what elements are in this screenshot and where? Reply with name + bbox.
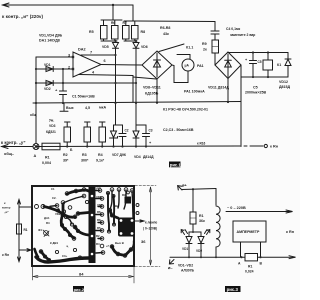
wire R5 R6 top bus: [101, 19, 122, 21]
svg-text:рис.1: рис.1: [170, 162, 182, 167]
svg-text:6: 6: [104, 59, 106, 63]
svg-text:R1: R1: [24, 228, 28, 232]
wire bridge1 bottom down: [156, 79, 158, 103]
svg-text:АМПЕРМЕТР: АМПЕРМЕТР: [237, 230, 261, 234]
svg-text:R1: R1: [248, 265, 252, 269]
dimension 36: [135, 186, 160, 267]
minus terminal: [170, 260, 174, 264]
svg-text:С5: С5: [258, 60, 262, 64]
pcb relay footprint: [118, 218, 135, 237]
wire R9 to bridge2: [214, 53, 216, 65]
wire PA1 bottom loop: [172, 65, 188, 83]
node: [156, 102, 158, 104]
capacitor C4: [211, 22, 219, 41]
switch K1.1: [159, 44, 190, 59]
inductor coil: [216, 189, 220, 258]
svg-text:C2: C2: [125, 129, 129, 133]
wire VD7 C2 jog: [114, 124, 123, 126]
svg-text:Б: Б: [70, 148, 73, 152]
svg-text:КД521: КД521: [46, 130, 56, 134]
svg-text:VD3: VD3: [49, 124, 56, 128]
wire R1 bottom: [192, 224, 194, 232]
svg-text:Д815Д: Д815Д: [279, 85, 291, 89]
pcb pads: [35, 188, 140, 262]
svg-text:39*: 39*: [63, 159, 69, 163]
svg-text:DA1 140УД8: DA1 140УД8: [39, 39, 60, 43]
svg-text:КД105Б: КД105Б: [145, 92, 159, 96]
led VD2: [198, 230, 210, 258]
svg-text:R2: R2: [96, 234, 100, 238]
node: [252, 76, 254, 78]
node: [135, 40, 137, 42]
wire pin3 input: [36, 56, 73, 58]
wire arrow 220: [226, 211, 292, 213]
svg-text:2к: 2к: [203, 48, 207, 52]
node: [62, 68, 64, 70]
node: [227, 101, 229, 103]
svg-text:к контр. „у”: к контр. „у”: [1, 140, 25, 145]
zener VD12: [285, 53, 291, 78]
wire R7-R8 bottom: [124, 40, 137, 42]
svg-text:9,1к*: 9,1к*: [96, 159, 105, 163]
svg-text:Д814Д: Д814Д: [143, 155, 154, 159]
svg-text:С3+: С3+: [62, 254, 68, 258]
svg-text:R4: R4: [98, 153, 103, 157]
wire test bottom: [19, 249, 30, 251]
pcb right-mid traces: [108, 193, 114, 231]
svg-text:контр: контр: [2, 206, 11, 210]
svg-text:VD2: VD2: [196, 249, 202, 253]
svg-text:В: В: [260, 262, 263, 266]
pcb trace knot: [60, 212, 65, 217]
shunt R1 fig3: [245, 254, 258, 261]
svg-text:( 0–120В): ( 0–120В): [143, 227, 157, 231]
svg-text:рис.2: рис.2: [74, 287, 85, 292]
node: [192, 231, 194, 233]
node: [35, 102, 37, 104]
svg-text:VD12: VD12: [279, 80, 288, 84]
wire R5-R6 bottom: [101, 40, 117, 42]
svg-text:+Г: +Г: [106, 244, 110, 248]
dimension 84: [33, 267, 135, 283]
svg-text:замените 2 вар: замените 2 вар: [230, 33, 255, 37]
wire opamp out to bridge: [101, 64, 142, 67]
svg-text:84: 84: [79, 272, 84, 277]
wire: [112, 5, 114, 20]
node: [62, 82, 64, 84]
svg-text:DA2: DA2: [78, 48, 86, 52]
svg-text:36к: 36к: [199, 219, 205, 223]
svg-text:+: +: [245, 58, 248, 62]
svg-text:VD4: VD4: [134, 155, 141, 159]
node: [101, 145, 103, 147]
svg-text:АЛ307Б: АЛ307Б: [181, 269, 195, 273]
wire bridge2 right down: [240, 65, 242, 147]
diode VD2: [46, 81, 53, 86]
label lamp arrow: [135, 220, 143, 222]
svg-text:Вых: Вых: [66, 106, 74, 110]
node A fig3: [240, 256, 242, 258]
wire right bottom bus: [241, 76, 288, 78]
svg-text:43к: 43к: [163, 32, 169, 36]
wire VD5 down rail: [115, 48, 117, 125]
svg-text:300*: 300*: [81, 159, 89, 163]
svg-text:VD5: VD5: [102, 45, 109, 49]
resistor Rt: [17, 224, 22, 234]
resistor R1: [42, 143, 60, 150]
svg-text:7: 7: [90, 51, 92, 55]
fig1 tag: [169, 162, 181, 168]
svg-text:~ 0 – 220В: ~ 0 – 220В: [227, 206, 246, 210]
svg-text:К1: К1: [277, 63, 281, 67]
wire down to bus: [132, 76, 134, 103]
wire ammeter legs: [240, 242, 242, 257]
svg-text:R6-R8: R6-R8: [160, 26, 170, 30]
svg-text:R8: R8: [97, 218, 101, 222]
ground stub: [60, 103, 68, 111]
svg-text:С1: С1: [51, 187, 55, 191]
svg-text:4,5: 4,5: [85, 106, 90, 110]
nodes on bus: [188, 256, 190, 258]
fig2 tag: [73, 286, 84, 292]
wire: [133, 5, 137, 21]
svg-text:VD1: VD1: [182, 247, 188, 251]
fig3 tag: [225, 286, 241, 292]
ammeter box: [233, 221, 266, 242]
svg-text:VD2: VD2: [55, 212, 61, 216]
svg-text:к R16: к R16: [197, 142, 206, 146]
node: [145, 145, 147, 147]
svg-text:VD1: VD1: [44, 63, 51, 67]
wire left rail: [35, 57, 37, 144]
node: [62, 102, 64, 104]
node: [135, 102, 137, 104]
svg-text:А: А: [238, 262, 241, 266]
svg-text:К1.1: К1.1: [186, 46, 193, 50]
node pin2: [72, 68, 74, 70]
svg-text:⌀–: ⌀–: [168, 265, 173, 270]
svg-text:R4: R4: [46, 221, 50, 225]
arrowhead right: [289, 256, 296, 259]
svg-text:„и”: „и”: [4, 210, 9, 214]
svg-text:+: +: [55, 88, 58, 93]
wire pin7 stub: [81, 54, 116, 56]
node: [252, 51, 254, 53]
svg-text:+: +: [149, 141, 152, 145]
led VD1: [181, 230, 192, 258]
wire dash2: [250, 145, 263, 147]
svg-text:C1 50мк×16В: C1 50мк×16В: [72, 95, 95, 99]
node B fig3: [259, 256, 261, 258]
svg-text:мкА: мкА: [99, 106, 106, 110]
node A terminal: [33, 144, 39, 150]
wire VD6 down rail: [135, 48, 137, 125]
pcb small blob: [125, 197, 132, 204]
arrowhead mains top: [3, 3, 10, 7]
svg-text:μA: μA: [185, 64, 190, 68]
svg-text:R1: R1: [45, 156, 50, 160]
node: [267, 76, 269, 78]
wire test rail: [18, 200, 20, 261]
svg-text:R4: R4: [96, 242, 100, 246]
svg-text:VD6: VD6: [97, 203, 103, 207]
resistor R3: [84, 122, 91, 147]
diode VD1: [46, 67, 53, 72]
svg-text:к лампе: к лампе: [145, 221, 158, 225]
svg-text:VD11 Д814Д: VD11 Д814Д: [208, 86, 229, 90]
svg-text:R2: R2: [63, 153, 68, 157]
svg-text:общ: общ: [30, 113, 37, 117]
svg-text:к Rн: к Rн: [286, 230, 295, 234]
svg-text:0,024: 0,024: [245, 270, 254, 274]
diode VD5: [113, 43, 119, 49]
svg-text:⌀+: ⌀+: [182, 183, 187, 188]
pcb ground bar: [89, 187, 96, 263]
svg-text:Ф1: Ф1: [38, 228, 42, 232]
svg-text:ДА1: ДА1: [44, 216, 50, 220]
node: [114, 102, 116, 104]
wire R7 R8 top bus: [124, 20, 137, 22]
svg-text:36: 36: [141, 239, 146, 244]
svg-text:VD7 Д9К: VD7 Д9К: [112, 153, 127, 157]
node: [114, 54, 116, 56]
svg-text:4: 4: [92, 71, 95, 75]
resistor R2: [64, 122, 71, 147]
node: [192, 188, 194, 190]
svg-text:R5: R5: [89, 30, 94, 34]
svg-text:VD1–VD2: VD1–VD2: [178, 264, 193, 268]
pcb board outline: [32, 186, 134, 266]
node: [267, 51, 269, 53]
diode VD6: [133, 43, 139, 49]
svg-text:РА1: РА1: [197, 64, 204, 68]
svg-text:C4 0,1мк: C4 0,1мк: [226, 27, 240, 31]
svg-text:ц: ц: [67, 244, 69, 248]
resistor R7: [123, 21, 130, 41]
svg-text:К ДВ1: К ДВ1: [50, 241, 58, 245]
wire top bus to mains: [3, 4, 134, 6]
wire right top bus: [228, 52, 288, 54]
svg-text:Вых В: Вых В: [115, 241, 124, 245]
node: [86, 145, 88, 147]
pcb tiny labels: [38, 186, 126, 258]
svg-text:VD8–VD11: VD8–VD11: [143, 86, 161, 90]
svg-text:R9: R9: [202, 42, 207, 46]
svg-text:C2.: C2.: [52, 196, 57, 200]
svg-text:R7: R7: [123, 21, 127, 25]
svg-text:С2,С3 - 50мк×16В: С2,С3 - 50мк×16В: [163, 128, 194, 132]
svg-text:С5: С5: [253, 86, 258, 90]
resistor R4: [99, 122, 106, 147]
svg-text:к: к: [4, 201, 6, 205]
wire led split: [189, 232, 201, 236]
svg-text:рис.3: рис.3: [227, 287, 239, 292]
terminal circle: [264, 144, 267, 147]
node pin3: [72, 56, 74, 58]
node: [114, 82, 116, 84]
svg-text:Вк: Вк: [115, 204, 119, 208]
wire VD C3 jog: [136, 124, 146, 126]
svg-text:РА1 100мкА: РА1 100мкА: [184, 90, 205, 94]
svg-text:C3: C3: [149, 129, 153, 133]
wire dash: [244, 145, 247, 147]
arrowhead down: [18, 257, 21, 262]
diode VD4: [133, 125, 139, 147]
bridge VD8-VD11 right: [215, 52, 241, 79]
resistor R6: [112, 20, 119, 41]
bridge VD8-VD10: [142, 51, 172, 79]
svg-text:общ–: общ–: [4, 152, 14, 156]
capacitor C2: [119, 125, 126, 147]
svg-text:к контр. „и” (220v): к контр. „и” (220v): [2, 14, 43, 19]
wire bottom arrow: [2, 146, 34, 148]
wire long mid bus: [33, 102, 241, 104]
plus terminal: [178, 186, 182, 190]
resistor R9: [212, 40, 219, 53]
arrowhead right: [27, 249, 31, 252]
resistor R1 fig3: [190, 212, 196, 224]
node: [112, 145, 114, 147]
node B: [66, 145, 68, 147]
wire node column: [62, 69, 64, 91]
resistor R8: [132, 21, 139, 41]
wire R1 lead: [192, 189, 194, 212]
node: [135, 145, 137, 147]
node: [35, 68, 37, 70]
svg-text:К1 РЭС-48 ОУ4.590.202-01: К1 РЭС-48 ОУ4.590.202-01: [163, 108, 208, 112]
svg-text:VD2: VD2: [44, 87, 51, 91]
relay K1: [263, 53, 273, 78]
svg-text:2000мк×25В: 2000мк×25В: [245, 91, 267, 95]
node: [35, 82, 37, 84]
svg-text:VD6: VD6: [141, 45, 148, 49]
svg-text:0,004: 0,004: [42, 161, 51, 165]
capacitor C5: [250, 53, 257, 78]
ammeter PA1: [182, 59, 194, 71]
node: [121, 145, 123, 147]
svg-text:R5: R5: [97, 226, 101, 230]
wire bottom bus fig3: [170, 256, 295, 258]
svg-text:R6: R6: [111, 21, 115, 25]
svg-text:R3: R3: [82, 153, 87, 157]
wire top: [182, 189, 216, 190]
arrowhead up: [18, 200, 21, 205]
wire bottom bus: [36, 145, 240, 148]
capacitor C1: [60, 91, 67, 103]
svg-text:А: А: [34, 154, 37, 158]
op-amp DA2: [73, 52, 101, 77]
node top bus junction: [112, 4, 114, 6]
resistor R5: [101, 20, 108, 41]
svg-text:к Rн: к Rн: [2, 253, 9, 257]
svg-text:к Rн: к Rн: [270, 145, 279, 149]
svg-text:+: +: [58, 206, 60, 210]
node: [114, 40, 116, 42]
wire to bridge bottom: [133, 77, 157, 79]
wire pin2 input: [36, 68, 73, 70]
svg-text:R8: R8: [141, 30, 146, 34]
wire input left: [19, 206, 32, 208]
wire VD2 row: [36, 82, 136, 84]
svg-text:VD5: VD5: [96, 195, 102, 199]
svg-text:ув5: ув5: [96, 186, 101, 190]
pcb traces: [35, 190, 132, 262]
svg-text:VD1,VD4 Д9Б: VD1,VD4 Д9Б: [39, 34, 63, 38]
pcb mount hole: [43, 230, 49, 237]
zener VD7: [110, 125, 118, 147]
arrowhead bottom left: [2, 145, 9, 149]
svg-text:R6: R6: [97, 210, 101, 214]
wire bridge2 bottom down: [227, 79, 229, 103]
svg-text:R9: R9: [122, 193, 126, 197]
wire to C4: [137, 20, 215, 23]
svg-text:R1: R1: [199, 214, 204, 218]
capacitor C3: [143, 125, 150, 147]
wire pin4 stub: [79, 75, 133, 76]
svg-text:Ум.: Ум.: [49, 119, 54, 123]
